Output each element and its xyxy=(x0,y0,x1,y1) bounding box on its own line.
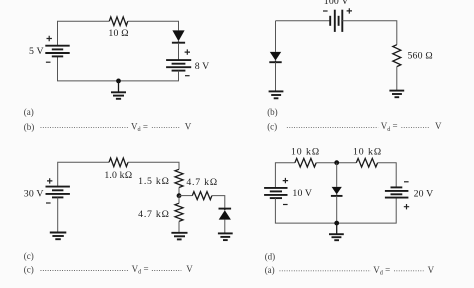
wire: bottom wire circuit (a) xyxy=(58,56,179,81)
ground (circuit c middle) xyxy=(171,233,187,240)
node: junction dot bottom circuit (a) xyxy=(116,79,121,84)
wire: diode to battery 8V xyxy=(178,43,180,60)
dotted line 2 xyxy=(152,270,181,272)
battery 100 V (horizontal plates) xyxy=(330,10,342,32)
label 30 V value xyxy=(24,188,44,199)
battery 30 V (circuit c) xyxy=(46,187,70,198)
diode D3 (circuit c, cathode up) xyxy=(219,209,232,220)
svg-text:V: V xyxy=(186,264,193,274)
wire: 4.7k vertical to ground (circuit c middle) xyxy=(178,221,180,232)
svg-text:(a): (a) xyxy=(265,265,275,275)
label 1.0 kohm value xyxy=(104,170,132,181)
resistor 1.5 kohm (circuit c middle) xyxy=(175,169,183,187)
wire: top wire left segment (circuit d) xyxy=(275,163,295,188)
label (a) answer line xyxy=(265,265,275,275)
label 4.7 kohm vertical value xyxy=(138,209,170,220)
label (b) answer line xyxy=(24,122,35,132)
diode D1 (circuit a, cathode down) xyxy=(172,30,185,42)
label V unit xyxy=(428,265,435,275)
svg-text:(d): (d) xyxy=(265,251,276,261)
label V unit xyxy=(185,122,192,132)
ground (circuit b left) xyxy=(269,91,284,98)
wire: top right segment circuit (b) xyxy=(342,21,397,45)
svg-text:(c): (c) xyxy=(267,121,277,131)
svg-text:1.5 kΩ: 1.5 kΩ xyxy=(138,176,170,187)
resistor 560 ohm (circuit b) xyxy=(393,45,401,67)
wire: horizontal resistor to diode branch corner (circuit c) xyxy=(212,196,225,209)
dotted line 2 xyxy=(152,127,180,129)
svg-text:100 V: 100 V xyxy=(324,0,349,7)
label (b) xyxy=(267,107,278,117)
wire: diode to bottom node (circuit d) xyxy=(336,196,338,223)
ground (circuit b right) xyxy=(389,91,404,98)
label (d) xyxy=(265,251,276,261)
node: junction dot circuit (c) xyxy=(177,193,182,198)
label 560 ohm value xyxy=(408,51,434,62)
label 8 V value xyxy=(195,61,210,72)
label 10 kohm left value xyxy=(291,146,320,157)
label 10 ohm value xyxy=(108,28,129,39)
svg-text:30 V: 30 V xyxy=(24,188,44,199)
node: bottom junction dot (circuit d) xyxy=(334,221,339,226)
label (a) xyxy=(24,107,34,117)
label Vd = xyxy=(381,121,398,133)
label minus sign battery 10V xyxy=(283,204,288,206)
dotted line 1 xyxy=(41,127,130,129)
wire: top right corner down to battery 20V (circuit d) xyxy=(378,163,397,188)
svg-text:20 V: 20 V xyxy=(414,188,434,199)
label 20 V value xyxy=(414,188,434,199)
battery 20 V (circuit d right) xyxy=(385,187,409,197)
label plus sign battery 5V xyxy=(47,36,52,41)
wire: 1.5k to junction node (circuit c) xyxy=(178,188,180,196)
svg-text:1.0 kΩ: 1.0 kΩ xyxy=(104,170,132,181)
wire: battery 30V to ground (circuit c) xyxy=(57,197,59,232)
resistor 4.7 kohm vertical (circuit c) xyxy=(175,203,183,221)
label 100 V value (cut off at top) xyxy=(324,0,349,7)
svg-text:(c): (c) xyxy=(24,251,34,261)
battery 10 V (circuit d left) xyxy=(264,188,287,198)
label 10 V value xyxy=(292,188,312,199)
wire: battery V1 plus terminal up and along top to resistor xyxy=(58,21,110,46)
svg-text:10 kΩ: 10 kΩ xyxy=(353,146,382,157)
resistor 10 kohm left (circuit d) xyxy=(295,158,316,167)
svg-text:(b): (b) xyxy=(24,122,35,132)
svg-text:4.7 kΩ: 4.7 kΩ xyxy=(186,177,218,188)
svg-text:560 Ω: 560 Ω xyxy=(408,51,434,62)
label plus sign battery 10V xyxy=(283,178,288,183)
label 10 kohm right value xyxy=(353,146,382,157)
dotted line 2 xyxy=(394,270,424,272)
wire: top left segment circuit (b) xyxy=(276,20,331,22)
wire: node to 4.7k vertical (circuit c) xyxy=(178,196,180,204)
wire: left branch down to diode (circuit b) xyxy=(275,21,277,52)
wire: node down to diode (circuit d) xyxy=(336,163,338,187)
wire: top right corner down to diode (circuit a) xyxy=(128,21,179,30)
label 4.7 kohm horizontal value xyxy=(186,177,218,188)
wire: battery 30V up and along top to resistor (circuit c) xyxy=(58,162,109,186)
label minus sign battery 30V xyxy=(46,202,51,204)
label (c) answer line xyxy=(24,265,34,275)
dotted line 1 xyxy=(280,270,371,272)
resistor 4.7 kohm horizontal (circuit c) xyxy=(192,192,212,200)
label minus sign battery 8V xyxy=(185,75,190,77)
wire: between resistors to node (circuit d) xyxy=(316,162,356,164)
ground (circuit d) xyxy=(329,223,344,240)
wire: resistor to ground (circuit b) xyxy=(396,67,398,91)
label V unit xyxy=(435,121,442,131)
node: top junction dot (circuit d) xyxy=(334,160,339,165)
dotted line 1 xyxy=(41,270,130,272)
svg-text:10 kΩ: 10 kΩ xyxy=(291,146,320,157)
label 1.5 kohm value xyxy=(138,176,170,187)
label minus sign battery 100V xyxy=(323,10,328,12)
svg-text:10 V: 10 V xyxy=(292,188,312,199)
label Vd = xyxy=(131,122,148,134)
label (c) xyxy=(24,251,34,261)
label Vd = xyxy=(132,264,149,276)
resistor 10 ohm (circuit a) xyxy=(109,17,128,26)
label Vd = xyxy=(373,265,390,277)
battery 5 V (circuit a left) xyxy=(45,46,69,57)
dotted line 2 xyxy=(401,126,430,128)
wire: diode to ground (circuit b) xyxy=(275,62,277,91)
label plus sign battery 30V xyxy=(47,178,52,183)
dotted line 1 xyxy=(287,126,378,128)
label minus sign battery 5V xyxy=(46,61,51,63)
resistor 1.0 kohm (circuit c) xyxy=(109,158,128,167)
wire: node to horizontal resistor (circuit c) xyxy=(179,195,192,197)
svg-text:V: V xyxy=(428,265,435,275)
label minus sign battery 20V xyxy=(404,181,409,183)
label plus sign battery 8V xyxy=(185,49,190,54)
svg-text:V: V xyxy=(435,121,442,131)
resistor 10 kohm right (circuit d) xyxy=(356,158,377,167)
svg-text:10 Ω: 10 Ω xyxy=(108,28,129,39)
label (c) answer line xyxy=(267,121,277,131)
svg-text:8 V: 8 V xyxy=(195,61,210,72)
label plus sign battery 100V xyxy=(347,8,352,13)
label V unit xyxy=(186,264,193,274)
svg-text:(b): (b) xyxy=(267,107,278,117)
svg-text:(c): (c) xyxy=(24,265,34,275)
diode D2 (circuit b, cathode down) xyxy=(269,52,281,62)
label plus sign battery 20V xyxy=(404,204,409,209)
svg-text:5 V: 5 V xyxy=(29,46,44,57)
wire: diode to ground (circuit c right) xyxy=(224,220,226,234)
ground (circuit c right) xyxy=(218,233,233,240)
svg-text:4.7 kΩ: 4.7 kΩ xyxy=(138,209,170,220)
svg-text:V: V xyxy=(185,122,192,132)
ground (circuit a) xyxy=(111,81,126,99)
label 5 V value xyxy=(29,46,44,57)
svg-text:(a): (a) xyxy=(24,107,34,117)
battery 8 V (circuit a right) xyxy=(166,60,191,71)
wire: top wire right segment to middle branch (circuit c) xyxy=(128,162,179,169)
diode D4 (circuit d, cathode down) xyxy=(331,187,343,196)
wire: battery 10V to bottom wire (circuit d) xyxy=(275,198,396,224)
ground (circuit c left) xyxy=(50,233,67,240)
